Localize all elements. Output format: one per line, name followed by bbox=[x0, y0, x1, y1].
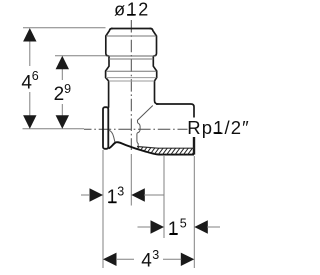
dimension 1.3 stems bbox=[81, 194, 164, 196]
socket left profile bbox=[106, 29, 113, 108]
dimension 4.6 arrows bbox=[23, 28, 36, 129]
dimension 4.3 text bbox=[141, 248, 159, 272]
label d12 bbox=[114, 0, 150, 20]
socket ring line flare bottom bbox=[106, 35, 156, 37]
svg-text:2: 2 bbox=[54, 84, 65, 105]
svg-text:3: 3 bbox=[152, 248, 159, 262]
dimension 4.6 line bbox=[29, 40, 31, 117]
extension line thread start bbox=[163, 156, 165, 238]
socket ring line insertion depth bbox=[107, 55, 156, 57]
socket ring line 2 bbox=[109, 58, 153, 60]
svg-text:1: 1 bbox=[168, 219, 179, 240]
extension line socket depth bbox=[55, 55, 108, 57]
svg-text:4: 4 bbox=[141, 250, 152, 270]
horizontal centerline bbox=[84, 128, 189, 130]
socket right profile bbox=[150, 29, 158, 105]
branch end face lower bbox=[193, 137, 195, 155]
dimension 4.6 text bbox=[21, 69, 38, 93]
extension line vertical axis (bottom) bbox=[130, 154, 132, 206]
extension line branch end face (bottom) bbox=[193, 156, 195, 268]
dimension 2.9 arrows bbox=[56, 56, 69, 129]
dimension 1.5 text bbox=[168, 216, 187, 240]
svg-text:4: 4 bbox=[21, 72, 32, 93]
svg-text:9: 9 bbox=[64, 82, 71, 96]
socket ring line shoulder bbox=[109, 80, 155, 82]
branch top edge and end face upper bbox=[156, 104, 194, 118]
flange transition curve bbox=[109, 130, 115, 142]
dimension 4.3 stems bbox=[116, 258, 181, 260]
outer bottom S-curve bbox=[109, 142, 194, 154]
dimension 1.3 text bbox=[107, 185, 125, 209]
vertical centerline bbox=[130, 20, 132, 150]
dimension 2.9 line bbox=[61, 68, 63, 117]
socket ring line bell top bbox=[106, 70, 156, 72]
dimension 1.3 arrows bbox=[90, 188, 145, 201]
svg-text:6: 6 bbox=[32, 69, 39, 83]
thread hatch strip bbox=[132, 144, 200, 156]
flange bbox=[103, 107, 108, 149]
svg-text:3: 3 bbox=[117, 185, 124, 199]
dimension 1.5 stems bbox=[138, 226, 221, 228]
dimension 2.9 text bbox=[54, 82, 72, 105]
extension line axis left bbox=[23, 128, 85, 130]
break squiggle bbox=[137, 121, 140, 147]
socket ring line bell bottom bbox=[106, 77, 156, 79]
extension line flange face (bottom) bbox=[102, 150, 104, 268]
label Rp 1/2 halo bbox=[188, 118, 252, 138]
svg-text:Rp1/2″: Rp1/2″ bbox=[187, 117, 250, 138]
inner diagonal (bore transition) bbox=[137, 106, 153, 121]
dimension 1.5 arrows bbox=[151, 220, 208, 233]
socket rim top bbox=[111, 28, 151, 30]
extension line top (rim level) bbox=[23, 27, 106, 29]
svg-text:ø12: ø12 bbox=[114, 0, 150, 20]
svg-text:1: 1 bbox=[107, 187, 118, 208]
dimension 4.3 arrows bbox=[103, 253, 194, 266]
svg-text:5: 5 bbox=[180, 216, 187, 230]
